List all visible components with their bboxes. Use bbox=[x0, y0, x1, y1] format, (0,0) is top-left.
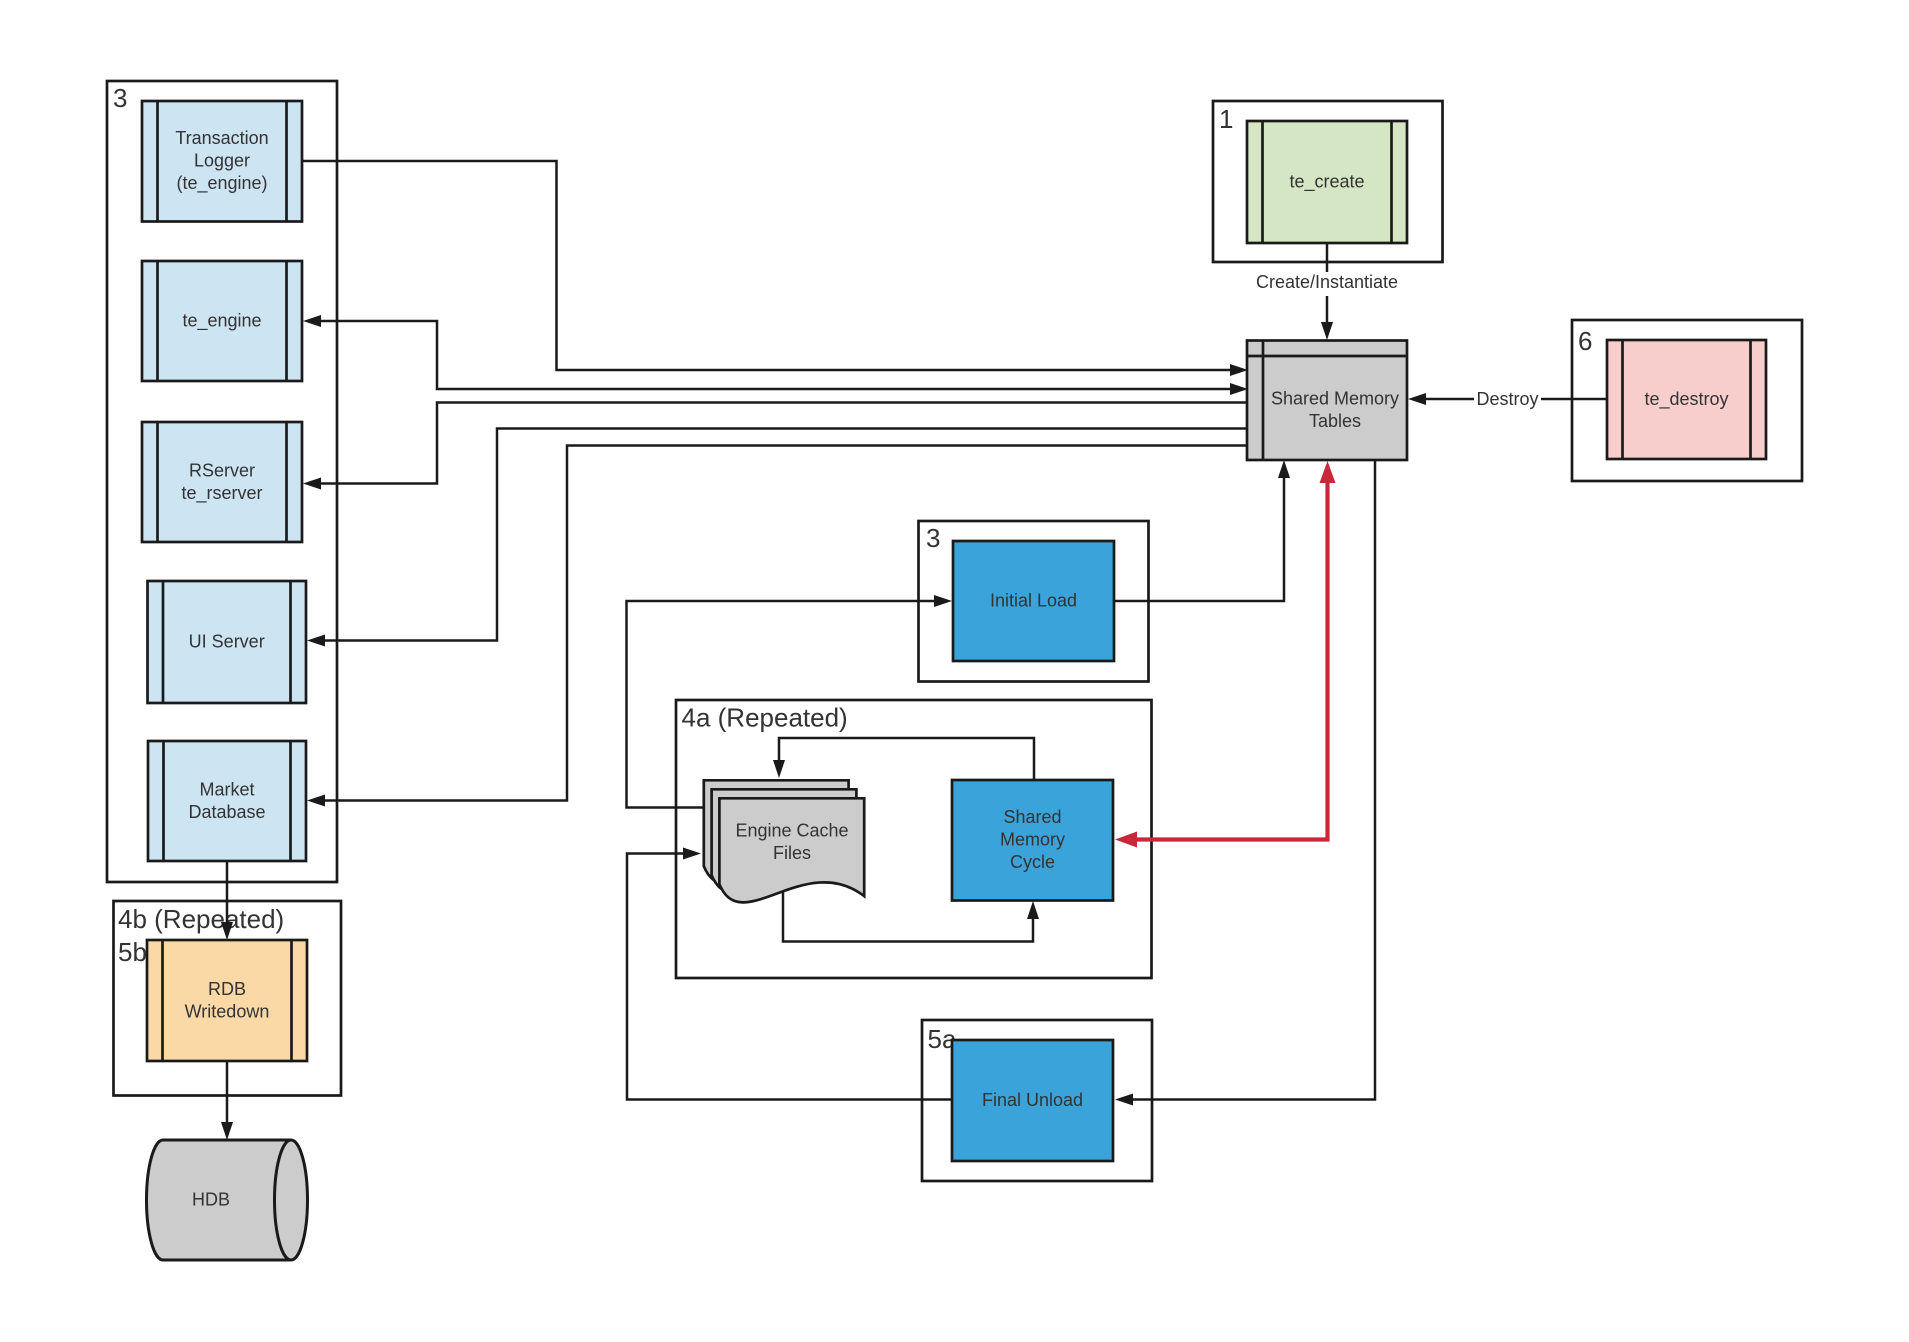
wire Transaction Logger to Shared Memory Tables bbox=[302, 161, 1240, 370]
wire Engine Cache Files to Shared Memory Cycle bbox=[783, 889, 1033, 942]
svg-text:Memory: Memory bbox=[1000, 830, 1065, 850]
container group 4a (Repeated) bbox=[676, 700, 1152, 978]
box Market Database bbox=[148, 741, 306, 861]
box UI Server bbox=[148, 581, 307, 703]
svg-text:5b: 5b bbox=[118, 937, 147, 967]
container group 1 (te_create) bbox=[1213, 101, 1443, 262]
wire Shared Memory Tables to Market Database bbox=[312, 446, 1247, 801]
svg-text:3: 3 bbox=[926, 523, 940, 553]
svg-text:Transaction: Transaction bbox=[175, 128, 268, 148]
label Destroy bbox=[1474, 386, 1541, 412]
container group 3 (top-left) bbox=[107, 81, 337, 882]
wire Shared Memory Cycle to Engine Cache Files bbox=[779, 738, 1034, 780]
svg-text:4a (Repeated): 4a (Repeated) bbox=[682, 703, 848, 733]
svg-text:Shared Memory: Shared Memory bbox=[1271, 388, 1399, 408]
wire Engine Cache Files to Initial Load bbox=[627, 601, 946, 808]
svg-text:Tables: Tables bbox=[1309, 411, 1361, 431]
wire RDB Writedown to HDB bbox=[226, 1061, 229, 1132]
cylinder HDB bbox=[147, 1140, 292, 1260]
box Shared Memory Cycle bbox=[952, 780, 1113, 901]
wire Final Unload to Engine Cache Files bbox=[627, 854, 952, 1100]
wire Market Database to RDB Writedown bbox=[226, 861, 229, 932]
wire Shared Memory Tables to Shared Memory Cycle (red) bbox=[1121, 466, 1328, 840]
svg-text:Final Unload: Final Unload bbox=[982, 1090, 1083, 1110]
svg-text:Shared: Shared bbox=[1003, 807, 1061, 827]
svg-text:4b (Repeated): 4b (Repeated) bbox=[118, 904, 284, 934]
svg-text:6: 6 bbox=[1578, 326, 1592, 356]
svg-text:Writedown: Writedown bbox=[185, 1001, 270, 1021]
svg-text:Create/Instantiate: Create/Instantiate bbox=[1256, 272, 1398, 292]
svg-text:UI Server: UI Server bbox=[189, 632, 265, 652]
container group 3 (Initial Load) bbox=[919, 521, 1149, 682]
box RServer te_rserver bbox=[142, 422, 302, 542]
multi-document Engine Cache Files bbox=[704, 780, 849, 884]
wire Shared Memory Tables to UI Server bbox=[312, 429, 1247, 641]
svg-text:RDB: RDB bbox=[208, 979, 246, 999]
svg-text:te_destroy: te_destroy bbox=[1644, 389, 1728, 410]
svg-text:te_create: te_create bbox=[1289, 172, 1364, 193]
svg-text:te_engine: te_engine bbox=[182, 311, 261, 332]
svg-text:RServer: RServer bbox=[189, 460, 255, 480]
wire te_destroy to Shared Memory Tables (Destroy) bbox=[1415, 398, 1607, 401]
svg-text:Market: Market bbox=[199, 779, 254, 799]
wire Shared Memory Tables to Final Unload bbox=[1122, 460, 1375, 1100]
wire te_create to Shared Memory Tables (Create/Instantiate) bbox=[1326, 243, 1329, 332]
box Final Unload bbox=[952, 1040, 1113, 1161]
svg-text:Database: Database bbox=[188, 802, 265, 822]
svg-text:(te_engine): (te_engine) bbox=[176, 173, 267, 194]
box Transaction Logger (te_engine) bbox=[142, 101, 302, 222]
svg-text:Initial Load: Initial Load bbox=[990, 591, 1077, 611]
container group 5a (Final Unload) bbox=[922, 1020, 1152, 1181]
label Create/Instantiate bbox=[1252, 272, 1402, 296]
wire te_engine to Shared Memory Tables (double arrow) bbox=[308, 321, 1240, 389]
svg-text:Logger: Logger bbox=[194, 151, 250, 171]
box Shared Memory Tables (internal storage) bbox=[1247, 341, 1407, 461]
svg-text:3: 3 bbox=[113, 83, 127, 113]
svg-text:HDB: HDB bbox=[192, 1190, 230, 1210]
box te_engine bbox=[142, 261, 302, 381]
container group 4b (Repeated) bbox=[114, 901, 342, 1096]
svg-text:1: 1 bbox=[1219, 104, 1233, 134]
container group 6 (te_destroy) bbox=[1572, 320, 1802, 481]
box te_destroy bbox=[1607, 340, 1766, 459]
wire Shared Memory Tables to RServer bbox=[310, 403, 1247, 484]
svg-text:te_rserver: te_rserver bbox=[181, 483, 262, 504]
svg-text:Cycle: Cycle bbox=[1010, 852, 1055, 872]
svg-text:Engine Cache: Engine Cache bbox=[735, 820, 848, 840]
box te_create bbox=[1247, 121, 1407, 243]
wire Initial Load to Shared Memory Tables bbox=[1114, 468, 1284, 601]
svg-text:Destroy: Destroy bbox=[1476, 389, 1538, 409]
svg-text:Files: Files bbox=[773, 843, 811, 863]
box RDB Writedown bbox=[147, 940, 307, 1061]
box Initial Load bbox=[953, 541, 1114, 661]
